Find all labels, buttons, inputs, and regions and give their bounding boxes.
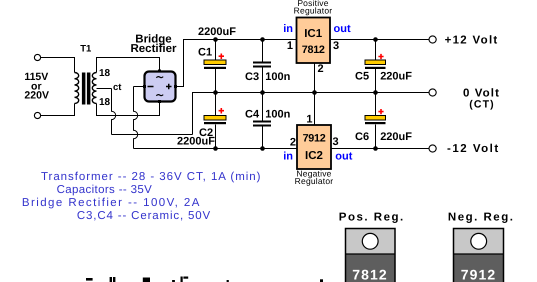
svg-text:C6: C6 <box>355 131 369 143</box>
svg-text:2200uF: 2200uF <box>177 136 215 148</box>
svg-text:Neg. Reg.: Neg. Reg. <box>448 212 515 224</box>
svg-text:C3,C4 -- Ceramic, 50V: C3,C4 -- Ceramic, 50V <box>77 210 211 222</box>
svg-text:(CT): (CT) <box>469 98 494 110</box>
svg-text:IC2: IC2 <box>305 150 323 162</box>
svg-text:T1: T1 <box>80 44 92 55</box>
svg-text:1: 1 <box>306 114 312 126</box>
svg-text:+12 Volt: +12 Volt <box>445 35 499 47</box>
svg-text:7812: 7812 <box>352 267 388 282</box>
svg-text:Regulator: Regulator <box>295 176 334 186</box>
svg-text:out: out <box>334 23 351 35</box>
svg-text:in: in <box>283 151 293 163</box>
svg-text:Capacitors -- 35V: Capacitors -- 35V <box>57 184 153 196</box>
svg-text:2: 2 <box>318 63 324 75</box>
svg-text:3: 3 <box>333 136 339 148</box>
svg-text:Transformer -- 28 - 36V CT, 1A: Transformer -- 28 - 36V CT, 1A (min) <box>41 171 261 183</box>
svg-text:7912: 7912 <box>461 267 497 282</box>
svg-text:Rectifier: Rectifier <box>130 43 177 55</box>
svg-text:220uF: 220uF <box>380 131 412 143</box>
svg-text:2: 2 <box>290 136 296 148</box>
svg-text:in: in <box>283 23 293 35</box>
svg-text:C1: C1 <box>198 47 212 59</box>
svg-text:7912: 7912 <box>303 133 326 145</box>
svg-text:3: 3 <box>333 40 339 52</box>
svg-text:C5: C5 <box>355 70 369 82</box>
svg-text:ct: ct <box>113 82 122 93</box>
svg-text:C3: C3 <box>245 71 259 83</box>
svg-text:2200uF: 2200uF <box>198 26 236 38</box>
svg-text:IC1: IC1 <box>304 28 323 40</box>
svg-text:18: 18 <box>99 68 111 79</box>
svg-text:220uF: 220uF <box>380 70 412 82</box>
svg-text:Regulator: Regulator <box>294 6 333 16</box>
svg-text:100n: 100n <box>265 71 290 83</box>
svg-text:18: 18 <box>99 97 111 108</box>
svg-text:100n: 100n <box>265 109 290 121</box>
svg-text:-12 Volt: -12 Volt <box>447 143 500 155</box>
svg-text:1: 1 <box>287 40 293 52</box>
svg-text:7812: 7812 <box>302 44 325 56</box>
svg-text:out: out <box>335 151 352 163</box>
svg-text:Pos. Reg.: Pos. Reg. <box>339 212 405 224</box>
svg-text:C4: C4 <box>245 109 260 121</box>
svg-text:Bridge Rectifier -- 100V, 2A: Bridge Rectifier -- 100V, 2A <box>22 197 201 209</box>
svg-text:220V: 220V <box>24 90 49 102</box>
